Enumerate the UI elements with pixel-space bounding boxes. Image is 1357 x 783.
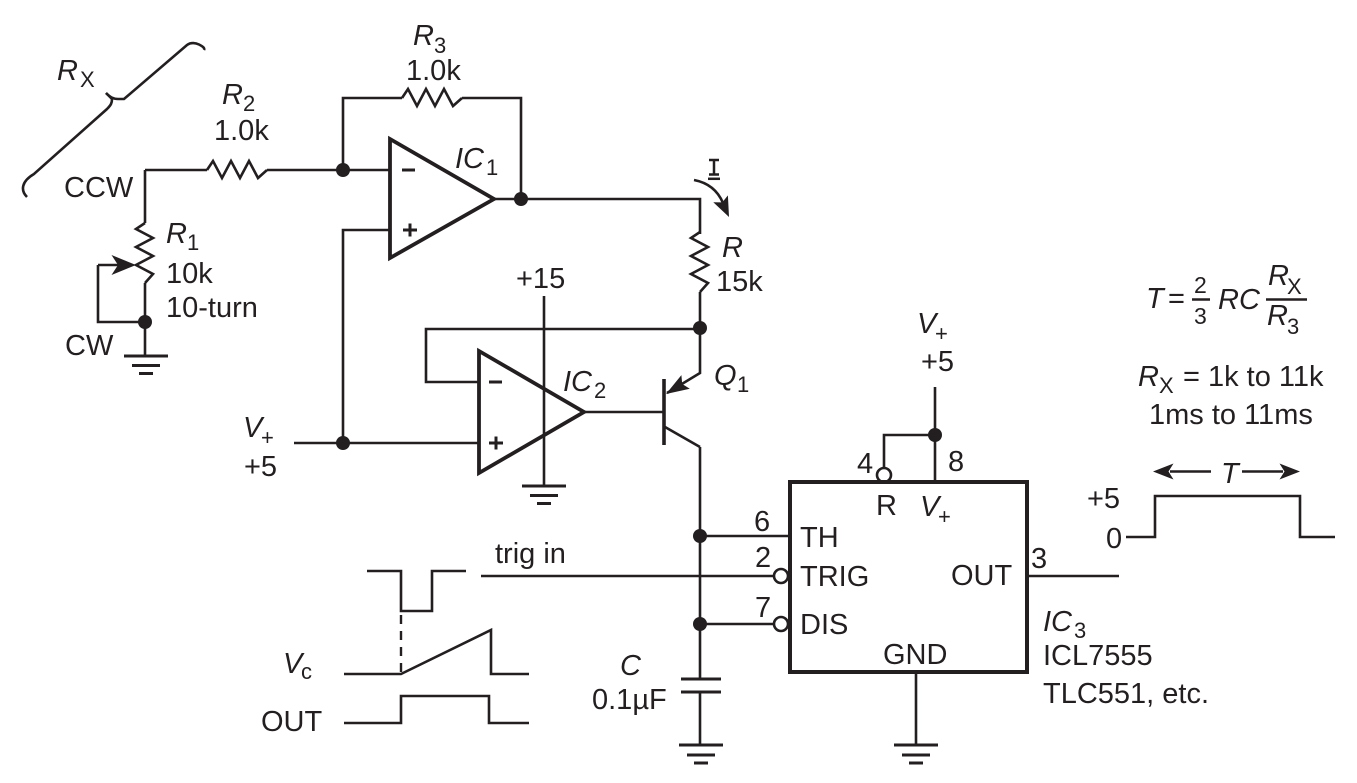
label 0.1uF: [592, 684, 667, 716]
formula T = 2/3 RC Rx/R3: [1146, 260, 1307, 339]
wire feedback right riser: [462, 98, 521, 199]
node A junction dot: [336, 163, 350, 177]
svg-text:R: R: [166, 218, 187, 250]
current arrow curved: [694, 180, 729, 217]
label trig in: [495, 538, 566, 570]
label R2: [222, 79, 255, 116]
label V+: [243, 412, 274, 450]
svg-text:R: R: [876, 490, 897, 522]
pin 2 TRIG bubble: [774, 569, 788, 583]
wire V+ rail to IC2 plus input: [294, 442, 479, 445]
R1 wiper arrow: [98, 255, 136, 275]
label R reset pin: [876, 490, 897, 522]
wire OUT pin 3: [1027, 575, 1119, 578]
svg-text:CCW: CCW: [64, 172, 134, 204]
svg-text:1: 1: [737, 372, 749, 397]
svg-text:IC: IC: [563, 366, 593, 398]
resistor Rx brace symbol: [23, 43, 204, 197]
op-amp IC2: [479, 351, 584, 473]
label TRIG: [800, 561, 869, 593]
svg-text:0.1µF: 0.1µF: [592, 684, 667, 716]
wire pin 4 branch: [884, 435, 935, 468]
IC1 plus sign: [403, 224, 417, 237]
label I with underline: [708, 160, 720, 179]
svg-text:TRIG: TRIG: [800, 561, 869, 593]
label pin 8: [948, 446, 964, 478]
svg-text:2: 2: [594, 378, 606, 403]
svg-text:R: R: [222, 79, 243, 111]
label +5 output level: [1087, 483, 1120, 515]
T interval arrows: [1153, 464, 1300, 480]
label Q1: [714, 360, 749, 397]
label 10-turn: [166, 292, 258, 324]
svg-text:R: R: [722, 232, 743, 264]
op-amp IC1: [390, 139, 494, 258]
label 1ms to 11ms: [1149, 399, 1313, 431]
wire IC2 feedback to emitter node: [426, 329, 700, 382]
svg-text:10-turn: 10-turn: [166, 292, 258, 324]
resistor R3: [402, 89, 462, 106]
label IC3: [1043, 606, 1086, 643]
svg-text:T: T: [1146, 283, 1166, 315]
svg-text:1.0k: 1.0k: [406, 55, 461, 87]
svg-text:6: 6: [754, 506, 770, 538]
svg-text:2: 2: [243, 91, 255, 116]
label Rx = 1k to 11k: [1138, 361, 1324, 398]
pin 7 DIS bubble: [774, 617, 788, 631]
svg-text:X: X: [80, 67, 95, 92]
ground below IC2: [522, 486, 566, 504]
IC3 box: [790, 482, 1027, 672]
label R2 value 1.0k: [214, 115, 269, 147]
label pin 2: [755, 542, 771, 574]
svg-text:T: T: [1221, 458, 1241, 490]
label pin 7: [755, 592, 771, 624]
svg-text:X: X: [1159, 373, 1174, 398]
resistor R1 potentiometer: [136, 223, 153, 283]
dashed timing line: [400, 615, 402, 674]
svg-text:R: R: [413, 20, 434, 52]
node emitter junction dot: [693, 321, 707, 335]
svg-text:= 1k to 11k: = 1k to 11k: [1183, 361, 1324, 393]
output pulse waveform: [1126, 496, 1335, 537]
svg-text:trig in: trig in: [495, 538, 566, 570]
svg-text:1: 1: [187, 230, 199, 255]
transistor Q1: [664, 328, 700, 447]
svg-text:8: 8: [948, 446, 964, 478]
svg-text:+: +: [935, 321, 948, 346]
svg-text:1ms to 11ms: 1ms to 11ms: [1149, 399, 1313, 431]
resistor R2: [207, 161, 267, 178]
svg-text:4: 4: [857, 448, 873, 480]
svg-text:3: 3: [1194, 303, 1207, 329]
label TLC551 etc: [1043, 678, 1209, 710]
wire TH pin: [700, 535, 790, 538]
svg-text:3: 3: [1287, 314, 1299, 339]
svg-text:OUT: OUT: [951, 560, 1013, 592]
OUT pulse waveform: [344, 696, 529, 723]
label T: [1221, 458, 1241, 490]
svg-text:+: +: [938, 504, 951, 529]
svg-text:C: C: [620, 650, 642, 682]
svg-text:C: C: [1239, 284, 1261, 316]
wire wiper to CW node: [98, 265, 145, 322]
svg-text:R: R: [1218, 284, 1239, 316]
svg-text:1.0k: 1.0k: [214, 115, 269, 147]
IC2 plus sign: [489, 437, 503, 450]
label Vc: [283, 648, 312, 684]
wire trig in to TRIG pin: [481, 575, 774, 578]
svg-text:TLC551, etc.: TLC551, etc.: [1043, 678, 1209, 710]
svg-text:+: +: [261, 425, 274, 450]
wire DIS pin: [700, 623, 774, 626]
ground below capacitor: [679, 745, 723, 763]
label DIS: [800, 609, 848, 641]
node TH junction dot: [693, 529, 707, 543]
svg-text:ICL7555: ICL7555: [1043, 640, 1153, 672]
wire IC1 output to R: [494, 199, 700, 234]
label V+ above IC3: [917, 308, 948, 346]
wire R1 bottom lead: [144, 283, 147, 355]
label Rx: [57, 55, 95, 92]
svg-text:10k: 10k: [166, 258, 213, 290]
wire R1 top lead: [144, 170, 147, 223]
svg-text:R: R: [1268, 260, 1289, 292]
ground below R1: [124, 356, 168, 374]
svg-text:TH: TH: [800, 522, 839, 554]
IC1 minus sign: [402, 169, 415, 172]
node CW junction dot: [138, 315, 152, 329]
label GND: [883, 639, 947, 671]
wire V+ supply to pin 8: [934, 387, 937, 482]
label +5: [244, 451, 277, 483]
label C: [620, 650, 642, 682]
ground below IC3: [894, 745, 938, 763]
label V+ pin inside: [920, 491, 951, 529]
svg-text:c: c: [301, 659, 312, 684]
wire IC2 output to Q1 base: [584, 411, 664, 414]
trigger input waveform: [367, 571, 466, 611]
svg-text:CW: CW: [65, 330, 114, 362]
wire GND pin: [915, 672, 918, 744]
svg-text:+5: +5: [244, 451, 277, 483]
label R3: [413, 20, 446, 58]
svg-text:DIS: DIS: [800, 609, 848, 641]
svg-text:IC: IC: [1043, 606, 1073, 638]
label IC1: [455, 143, 498, 180]
label R3 value 1.0k: [406, 55, 461, 87]
label pin 6: [754, 506, 770, 538]
wire +15 supply line: [543, 296, 546, 485]
IC1 output node dot: [514, 192, 528, 206]
label OUT waveform: [261, 706, 323, 738]
label TH: [800, 522, 839, 554]
capacitor C: [681, 679, 721, 692]
label 15k: [716, 266, 763, 298]
label 0 output level: [1106, 523, 1122, 555]
label R: [722, 232, 743, 264]
svg-text:7: 7: [755, 592, 771, 624]
svg-text:2: 2: [755, 542, 771, 574]
svg-text:2: 2: [1194, 272, 1207, 298]
wire R bottom to emitter node: [699, 292, 702, 328]
svg-text:15k: 15k: [716, 266, 763, 298]
wire CCW corner to R2: [145, 169, 207, 172]
node DIS junction dot: [693, 617, 707, 631]
wire feedback left riser: [343, 98, 402, 170]
label OUT pin: [951, 560, 1013, 592]
label CCW: [64, 172, 134, 204]
label IC2: [563, 366, 606, 403]
label ICL7555: [1043, 640, 1153, 672]
label R1: [166, 218, 199, 255]
label pin 4: [857, 448, 873, 480]
Vc ramp waveform: [344, 630, 529, 674]
node V+ junction dot: [336, 436, 350, 450]
node pin8 junction dot: [928, 428, 942, 442]
label +5 above IC3: [921, 346, 954, 378]
svg-text:0: 0: [1106, 523, 1122, 555]
svg-text:1: 1: [486, 155, 498, 180]
label CW: [65, 330, 114, 362]
label pin 3: [1031, 543, 1047, 575]
svg-text:OUT: OUT: [261, 706, 323, 738]
wire capacitor to ground: [699, 692, 702, 744]
pin 4 reset bubble: [877, 468, 891, 482]
svg-text:+5: +5: [1087, 483, 1120, 515]
svg-text:IC: IC: [455, 143, 485, 175]
label R1 value 10k: [166, 258, 213, 290]
svg-text:3: 3: [1031, 543, 1047, 575]
svg-text:R: R: [1267, 300, 1288, 332]
wire Q1 collector down: [699, 447, 702, 679]
wire R2 to IC1 inverting input: [267, 169, 390, 172]
svg-text:=: =: [1168, 283, 1185, 315]
svg-text:Q: Q: [714, 360, 737, 392]
svg-text:+5: +5: [921, 346, 954, 378]
resistor R 15k: [691, 232, 708, 292]
svg-text:R: R: [57, 55, 78, 87]
label +15: [516, 263, 565, 295]
svg-text:+15: +15: [516, 263, 565, 295]
wire IC1 plus input riser: [343, 230, 390, 443]
IC2 minus sign: [489, 381, 502, 384]
svg-text:GND: GND: [883, 639, 947, 671]
svg-text:R: R: [1138, 361, 1159, 393]
svg-text:X: X: [1287, 274, 1302, 299]
